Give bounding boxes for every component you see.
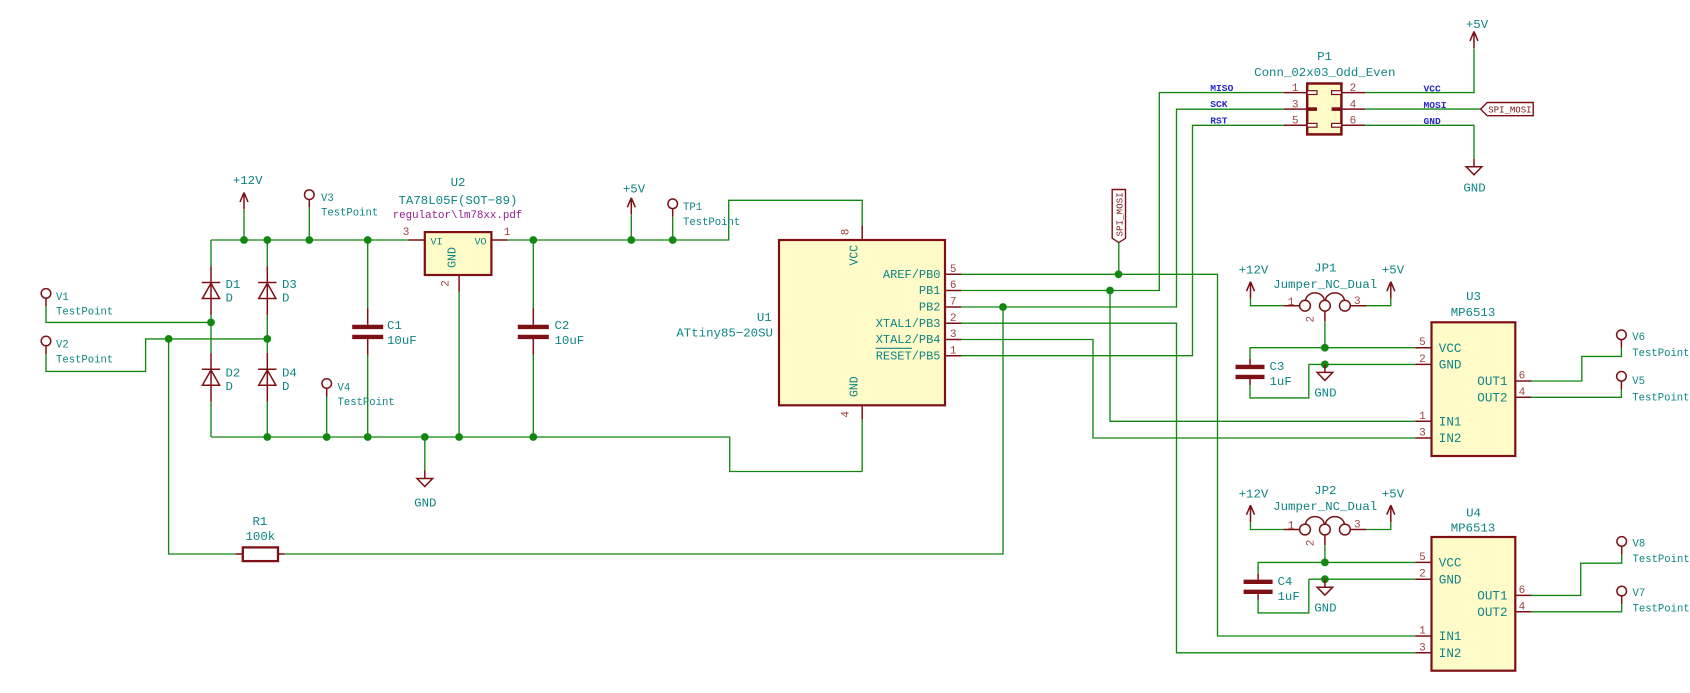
pin name VCC (U3) xyxy=(1439,342,1462,356)
diode D2 xyxy=(202,353,220,402)
label V3 xyxy=(321,193,334,205)
pin name RESET/PB5 xyxy=(876,349,941,363)
svg-text:OUT2: OUT2 xyxy=(1477,606,1507,620)
label TP1 xyxy=(683,202,702,214)
P1 pin 5 stub xyxy=(1284,124,1308,126)
label V3 TestPoint xyxy=(321,208,378,220)
junction +12V rail at arrow xyxy=(240,236,248,244)
U1 pin 5 AREF/PB0 stub xyxy=(945,273,961,275)
svg-text:C3: C3 xyxy=(1270,360,1285,374)
U2 pin 1 VO stub xyxy=(491,239,507,241)
wire P1 GND to ground xyxy=(1365,125,1474,159)
svg-text:1: 1 xyxy=(1419,626,1426,638)
label V8 TestPoint xyxy=(1633,554,1690,566)
label U4 value MP6513 xyxy=(1451,521,1496,535)
wire U3 VCC line to C3 xyxy=(1250,348,1415,359)
jumper JP2 xyxy=(1300,517,1351,546)
svg-text:U3: U3 xyxy=(1466,290,1481,304)
pin number 1 JP1-1 xyxy=(1288,297,1295,309)
pin number 2 U2 GND xyxy=(441,280,453,287)
svg-text:V5: V5 xyxy=(1632,376,1645,388)
label U2 datasheet xyxy=(393,210,523,222)
pin number 1 JP2-1 xyxy=(1288,521,1295,533)
svg-text:5: 5 xyxy=(1419,337,1426,349)
label +5V JP1 xyxy=(1382,264,1405,278)
svg-text:+5V: +5V xyxy=(623,183,646,197)
label V5 xyxy=(1632,376,1645,388)
pin name IN1 (U4) xyxy=(1439,630,1462,644)
wire P1 VCC to +5V xyxy=(1365,49,1474,93)
svg-text:U4: U4 xyxy=(1466,507,1481,521)
pin number 2 U3 GND xyxy=(1419,354,1426,366)
P1 pin 6 socket xyxy=(1332,123,1342,127)
label V5 TestPoint xyxy=(1632,393,1689,405)
wire U4 OUT2 to V7 xyxy=(1532,604,1622,612)
label V1 xyxy=(56,292,69,304)
svg-text:7: 7 xyxy=(950,297,957,309)
svg-text:4: 4 xyxy=(1519,387,1526,399)
label D4 xyxy=(282,367,297,381)
label V8 xyxy=(1633,539,1646,551)
capacitor C2 xyxy=(518,308,549,355)
svg-text:TestPoint: TestPoint xyxy=(683,217,740,229)
svg-text:VO: VO xyxy=(475,238,487,249)
svg-text:PB1: PB1 xyxy=(919,284,941,298)
U1 pin 7 PB2 stub xyxy=(945,306,961,308)
pin name PB2 xyxy=(919,301,941,315)
pin name GND (U4) xyxy=(1439,573,1462,587)
svg-text:TestPoint: TestPoint xyxy=(338,397,395,409)
P1 pin 1 socket xyxy=(1307,91,1317,95)
svg-text:4: 4 xyxy=(1350,99,1357,111)
svg-text:6: 6 xyxy=(950,280,957,292)
svg-text:SCK: SCK xyxy=(1210,99,1228,110)
junction +12V rail at C1 xyxy=(364,236,372,244)
label V4 xyxy=(338,383,351,395)
pin number 1 U1 RESET/PB5 xyxy=(950,345,957,357)
pin number 2 U4 GND xyxy=(1419,569,1426,581)
svg-text:Jumper_NC_Dual: Jumper_NC_Dual xyxy=(1273,500,1377,514)
svg-text:2: 2 xyxy=(1306,540,1318,547)
label V7 xyxy=(1633,588,1646,600)
pin name OUT1 (U4) xyxy=(1477,590,1507,604)
capacitor C4 xyxy=(1244,574,1273,600)
svg-text:RESET/PB5: RESET/PB5 xyxy=(876,349,941,363)
wire D1 to D2 xyxy=(210,315,212,353)
wire rail to C1 xyxy=(367,240,369,310)
P1 pin 4 stub xyxy=(1341,108,1365,110)
P1 pin 2 stub xyxy=(1341,92,1365,94)
label U2 xyxy=(451,176,466,190)
pin number 1 P1-1 xyxy=(1292,83,1299,95)
svg-text:IN2: IN2 xyxy=(1439,432,1462,446)
svg-text:2: 2 xyxy=(1350,83,1357,95)
wire U1 GND pin down xyxy=(861,419,863,471)
svg-text:VCC: VCC xyxy=(1439,342,1462,356)
pin number 4 U1 GND xyxy=(840,411,852,418)
svg-text:C2: C2 xyxy=(555,319,570,333)
svg-text:VCC: VCC xyxy=(1439,557,1462,571)
U1 pin 8 VCC stub xyxy=(861,225,863,240)
label C3 value 1uF xyxy=(1270,375,1292,389)
svg-text:C4: C4 xyxy=(1278,575,1293,589)
P1 pin 1 stub xyxy=(1284,92,1308,94)
diode D4 xyxy=(258,353,276,402)
wire +5V rail to U1 VCC xyxy=(508,200,862,240)
label P1 xyxy=(1317,50,1332,64)
svg-text:V7: V7 xyxy=(1633,588,1646,600)
label V6 xyxy=(1632,332,1645,344)
jumper JP1 xyxy=(1300,293,1351,322)
svg-text:MISO: MISO xyxy=(1210,83,1233,94)
svg-text:U2: U2 xyxy=(451,176,466,190)
pin number 3 JP2-3 xyxy=(1354,520,1361,532)
wire D2 to bottom rail xyxy=(210,402,212,437)
svg-text:10uF: 10uF xyxy=(555,334,585,348)
JP2 pin 3 stub xyxy=(1350,529,1366,531)
ground symbol under U2 xyxy=(417,471,433,487)
label R1 xyxy=(253,515,268,529)
label U3 xyxy=(1466,290,1481,304)
svg-text:GND: GND xyxy=(1314,387,1336,401)
pin number 5 U1 AREF/PB0 xyxy=(950,264,957,276)
pin number 4 P1-4 xyxy=(1350,99,1357,111)
pin number 7 U1 PB2 xyxy=(950,297,957,309)
label GND below P1 xyxy=(1463,182,1485,196)
P1 pin 3 stub xyxy=(1284,108,1308,110)
pin name IN1 (U3) xyxy=(1439,415,1462,429)
label JP1 value Jumper_NC_Dual xyxy=(1273,278,1377,292)
power symbol +12V xyxy=(240,193,248,210)
label U1 xyxy=(757,311,772,325)
wire V2 node down to R1 xyxy=(169,339,236,554)
svg-text:4: 4 xyxy=(1519,601,1526,613)
wire SPI_MOSI label to PB0 net xyxy=(1118,243,1120,275)
U3 pin 4 OUT2 stub xyxy=(1515,396,1531,398)
junction SPI_MOSI on PB0 net xyxy=(1115,270,1123,278)
net label MOSI xyxy=(1424,100,1447,111)
junction +5V rail at C2 xyxy=(529,236,537,244)
U4 pin 1 IN1 stub xyxy=(1415,635,1431,637)
junction D1-D2 node xyxy=(207,319,215,327)
junction GND rail at V4 xyxy=(323,433,331,441)
svg-text:D3: D3 xyxy=(282,278,297,292)
svg-text:P1: P1 xyxy=(1317,50,1332,64)
testpoint V1 xyxy=(41,289,51,307)
testpoint V2 xyxy=(41,336,51,354)
svg-text:TA78L05F(SOT−89): TA78L05F(SOT−89) xyxy=(399,194,518,208)
svg-text:6: 6 xyxy=(1519,585,1526,597)
pin number 4 U3 OUT2 xyxy=(1519,387,1526,399)
label V4 TestPoint xyxy=(338,397,395,409)
pin number 6 U3 OUT1 xyxy=(1519,371,1526,383)
resistor R1 xyxy=(236,547,285,561)
label +12V JP2 xyxy=(1239,487,1269,501)
label +5V above P1 xyxy=(1466,18,1489,32)
net label SCK xyxy=(1210,99,1228,110)
wire V1 to D1-D2 node xyxy=(46,306,211,322)
pin number 2 JP2 xyxy=(1306,540,1318,547)
U1 pin 4 GND stub xyxy=(861,405,863,419)
junction PB2 branch to R1 xyxy=(999,303,1007,311)
svg-text:1: 1 xyxy=(1292,83,1299,95)
testpoint TP1 xyxy=(668,199,678,217)
wire V4 to GND rail xyxy=(326,397,328,438)
wire U3 OUT1 to V6 xyxy=(1532,348,1622,381)
svg-text:3: 3 xyxy=(1419,642,1426,654)
junction +12V rail at D3 xyxy=(263,236,271,244)
pin number 1 U2 VO xyxy=(504,227,511,239)
svg-text:TestPoint: TestPoint xyxy=(1632,393,1689,405)
svg-text:VI: VI xyxy=(431,238,443,249)
svg-text:+12V: +12V xyxy=(1239,487,1269,501)
svg-text:TestPoint: TestPoint xyxy=(1633,604,1690,616)
label TP1 TestPoint xyxy=(683,217,740,229)
svg-text:GND: GND xyxy=(414,497,436,511)
JP2 pin 1 stub xyxy=(1283,529,1299,531)
svg-text:VCC: VCC xyxy=(849,245,862,266)
wire +12V arrow to rail xyxy=(243,210,245,240)
pin number 2 P1-2 xyxy=(1350,83,1357,95)
svg-text:5: 5 xyxy=(1292,116,1299,128)
U2 pin 3 VI stub xyxy=(408,239,424,241)
label JP2 xyxy=(1314,484,1336,498)
power symbol +5V near U2 xyxy=(627,198,635,215)
pin number 5 P1-5 xyxy=(1292,116,1299,128)
U4 pin 5 VCC stub xyxy=(1415,561,1431,563)
junction GND rail at C2 xyxy=(529,433,537,441)
P1 pin 2 socket xyxy=(1332,91,1342,95)
junction GND symbol on U4 GND xyxy=(1321,575,1329,583)
label U3 value MP6513 xyxy=(1451,306,1496,320)
power +5V at JP2 xyxy=(1387,505,1395,522)
svg-text:+12V: +12V xyxy=(233,174,263,188)
label U4 xyxy=(1466,507,1481,521)
svg-text:PB2: PB2 xyxy=(919,301,941,315)
U3 pin 1 IN1 stub xyxy=(1415,420,1431,422)
pin number 3 P1-3 xyxy=(1292,99,1299,111)
junction JP1 pin2 on U3 VCC xyxy=(1321,344,1329,352)
U4 pin 2 GND stub xyxy=(1415,578,1431,580)
U3 pin 5 VCC stub xyxy=(1415,347,1431,349)
P1 pin 4 socket xyxy=(1332,107,1342,111)
svg-text:TestPoint: TestPoint xyxy=(321,208,378,220)
IC U1 ATtiny85 xyxy=(779,240,945,405)
wire JP2 pin2 to VCC line xyxy=(1324,545,1326,562)
U1 pin 6 PB1 stub xyxy=(945,290,961,292)
pin name OUT2 (U4) xyxy=(1477,606,1507,620)
svg-text:IN1: IN1 xyxy=(1439,415,1462,429)
svg-text:3: 3 xyxy=(1354,296,1361,308)
wire +12V to JP2 pin1 xyxy=(1251,522,1284,529)
net label VCC xyxy=(1424,83,1442,94)
pin name OUT1 (U3) xyxy=(1477,375,1507,389)
svg-text:2: 2 xyxy=(1306,316,1318,323)
svg-text:XTAL1/PB3: XTAL1/PB3 xyxy=(876,317,941,331)
svg-text:V1: V1 xyxy=(56,292,69,304)
svg-text:1uF: 1uF xyxy=(1270,375,1292,389)
testpoint V8 xyxy=(1617,537,1627,555)
svg-text:3: 3 xyxy=(1354,520,1361,532)
label P1 value Conn_02x03_Odd_Even xyxy=(1254,66,1395,80)
regulator U2 xyxy=(425,232,492,275)
label C1 value 10uF xyxy=(387,334,417,348)
svg-text:SPI_MOSI: SPI_MOSI xyxy=(1488,106,1531,116)
power +5V at JP1 xyxy=(1387,282,1395,299)
svg-text:Jumper_NC_Dual: Jumper_NC_Dual xyxy=(1273,278,1377,292)
junction +5V rail at TP1 xyxy=(669,236,677,244)
wire U4 VCC line to C4 xyxy=(1258,562,1415,573)
svg-text:3: 3 xyxy=(403,227,410,239)
label GND under U2 xyxy=(414,497,436,511)
svg-text:1: 1 xyxy=(1419,411,1426,423)
label GND at C3 xyxy=(1314,387,1336,401)
global label SPI_MOSI (vertical) xyxy=(1112,190,1125,243)
pin number 8 U1 VCC xyxy=(840,229,852,236)
wire PB2 net to P1 SCK xyxy=(961,109,1283,307)
label GND at C4 xyxy=(1314,602,1336,616)
svg-text:TestPoint: TestPoint xyxy=(1633,554,1690,566)
wire V3 to rail xyxy=(308,208,310,240)
svg-text:SPI_MOSI: SPI_MOSI xyxy=(1114,192,1125,236)
svg-text:MP6513: MP6513 xyxy=(1451,306,1496,320)
svg-text:D: D xyxy=(282,380,289,394)
wire C2 to GND rail xyxy=(532,355,534,437)
pin name AREF/PB0 xyxy=(883,268,941,282)
testpoint V6 xyxy=(1617,330,1627,348)
svg-text:GND: GND xyxy=(1439,359,1462,373)
wire U4 OUT1 to V8 xyxy=(1532,554,1622,595)
wire PB3 net to U4 IN2 xyxy=(961,323,1415,653)
U4 pin 3 IN2 stub xyxy=(1415,652,1431,654)
connector P1 xyxy=(1307,84,1341,135)
wire D3 to D4 xyxy=(266,315,268,353)
svg-text:regulator\lm78xx.pdf: regulator\lm78xx.pdf xyxy=(393,210,523,222)
testpoint V3 xyxy=(305,190,315,208)
pin name GND (U3) xyxy=(1439,359,1462,373)
junction V2 node to R1 branch xyxy=(165,335,173,343)
wire GND rail to ground symbol xyxy=(424,437,426,471)
overline on RESET xyxy=(876,347,913,349)
net label MISO xyxy=(1210,83,1233,94)
svg-text:TestPoint: TestPoint xyxy=(56,355,113,367)
U3 pin 2 GND stub xyxy=(1415,363,1431,365)
wire PB5 net to P1 RST xyxy=(961,125,1283,355)
svg-text:GND: GND xyxy=(1314,602,1336,616)
svg-text:3: 3 xyxy=(1292,99,1299,111)
wire +5V rail to C2 xyxy=(532,240,534,310)
junction GND rail at GND symbol xyxy=(421,433,429,441)
power +12V at JP1 xyxy=(1247,282,1255,299)
svg-text:D1: D1 xyxy=(226,278,241,292)
svg-text:R1: R1 xyxy=(253,515,268,529)
testpoint V5 xyxy=(1617,372,1627,390)
wire V2 to D3-D4 node xyxy=(46,339,267,372)
pin name VCC (U4) xyxy=(1439,557,1462,571)
wire P1 MOSI to SPI_MOSI label xyxy=(1365,108,1480,110)
label JP1 xyxy=(1314,262,1336,276)
svg-text:1: 1 xyxy=(504,227,511,239)
pin number 2 U1 XTAL1/PB3 xyxy=(950,313,957,325)
wire U3 OUT2 to V5 xyxy=(1532,389,1622,397)
svg-text:V3: V3 xyxy=(321,193,334,205)
junction PB1 branch xyxy=(1106,287,1114,295)
net label GND xyxy=(1424,116,1442,127)
wire +5V arrow to rail xyxy=(630,215,632,240)
svg-text:D: D xyxy=(226,292,233,306)
svg-text:+12V: +12V xyxy=(1239,264,1269,278)
svg-text:JP2: JP2 xyxy=(1314,484,1336,498)
wire U3 GND line xyxy=(1309,363,1415,365)
pin number 2 JP1 xyxy=(1306,316,1318,323)
P1 pin 3 socket xyxy=(1307,107,1317,111)
svg-text:+5V: +5V xyxy=(1382,487,1405,501)
U4 pin 4 OUT2 stub xyxy=(1515,611,1531,613)
label +12V JP1 xyxy=(1239,264,1269,278)
junction +12V rail at V3 xyxy=(305,236,313,244)
svg-text:V2: V2 xyxy=(56,340,69,352)
wire D4 to bottom rail xyxy=(266,402,268,437)
wire rail to D3 xyxy=(266,240,268,266)
svg-text:3: 3 xyxy=(1419,428,1426,440)
label D1 xyxy=(226,278,241,292)
wire JP1 pin2 to VCC line xyxy=(1324,321,1326,347)
P1 pin 5 socket xyxy=(1307,123,1317,127)
svg-text:JP1: JP1 xyxy=(1314,262,1336,276)
wire bottom GND rail xyxy=(211,437,862,472)
wire +12V top rail xyxy=(211,239,409,241)
pin number 6 P1-6 xyxy=(1350,116,1357,128)
svg-text:XTAL2/PB4: XTAL2/PB4 xyxy=(876,333,941,347)
wire U2 GND pin to rail xyxy=(458,292,460,438)
U2 pin 2 GND stub xyxy=(458,275,460,292)
svg-text:V4: V4 xyxy=(338,383,351,395)
svg-text:GND: GND xyxy=(849,376,862,397)
pin name VI xyxy=(431,238,443,249)
svg-text:OUT1: OUT1 xyxy=(1477,590,1507,604)
JP1 pin 1 stub xyxy=(1283,305,1299,307)
junction +5V rail at arrow xyxy=(627,236,635,244)
U4 pin 6 OUT1 stub xyxy=(1515,594,1531,596)
wire PB4 net to U3 IN2 xyxy=(961,340,1415,439)
svg-text:D: D xyxy=(282,292,289,306)
svg-text:2: 2 xyxy=(1419,354,1426,366)
JP1 pin 3 stub xyxy=(1350,305,1366,307)
svg-text:2: 2 xyxy=(441,280,453,287)
power symbol +5V above P1 xyxy=(1470,31,1478,48)
global label SPI_MOSI (at P1) xyxy=(1481,103,1534,116)
label JP2 value Jumper_NC_Dual xyxy=(1273,500,1377,514)
pin number 1 U3 IN1 xyxy=(1419,411,1426,423)
label C1 xyxy=(387,319,402,333)
wire PB1 net to P1 MISO xyxy=(961,93,1283,291)
svg-text:GND: GND xyxy=(1439,573,1462,587)
net label RST xyxy=(1210,115,1228,126)
svg-text:1: 1 xyxy=(1288,297,1295,309)
label U2 value TA78L05F(SOT-89) xyxy=(399,194,518,208)
svg-text:ATtiny85−20SU: ATtiny85−20SU xyxy=(676,327,773,341)
pin number 3 U4 IN2 xyxy=(1419,642,1426,654)
svg-text:D2: D2 xyxy=(226,367,241,381)
pin name XTAL2/PB4 xyxy=(876,333,941,347)
svg-text:TestPoint: TestPoint xyxy=(56,307,113,319)
pin number 5 U3 VCC xyxy=(1419,337,1426,349)
diode D3 xyxy=(258,266,276,315)
junction JP2 pin2 on U4 VCC xyxy=(1321,559,1329,567)
junction GND symbol on U3 GND xyxy=(1321,361,1329,369)
pin name VO xyxy=(475,238,487,249)
wire C4 to U4 GND line xyxy=(1258,579,1309,613)
